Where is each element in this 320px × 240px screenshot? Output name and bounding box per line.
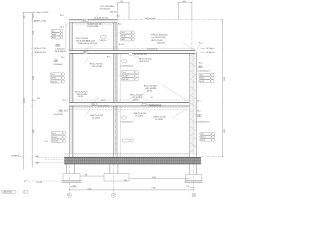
wall B above 1F slab <box>114 20 118 158</box>
svg-text:100V150 SBL: 100V150 SBL <box>87 26 99 28</box>
svg-text:Tsx 1: Tsx 1 <box>52 133 56 135</box>
svg-text:~PH Top Level: ~PH Top Level <box>144 18 156 20</box>
grid C centerline upper <box>191 20 193 52</box>
wall A above 1F slab <box>70 20 73 158</box>
svg-text:SBL 150: SBL 150 <box>110 12 117 14</box>
wall B centerline <box>114 22 116 157</box>
svg-text:C-100x50x20x2.3: C-100x50x20x2.3 <box>197 121 210 123</box>
svg-text:FG1: FG1 <box>124 180 127 182</box>
svg-text:1,40: 1,40 <box>186 186 189 188</box>
title tag bottom-left <box>2 190 28 193</box>
svg-text:H=19: H=19 <box>52 37 56 39</box>
beam tag on 5F slab near B + note <box>142 103 161 106</box>
beam tag on roof near B + note <box>128 53 147 56</box>
1F slab level labels left <box>34 156 45 164</box>
svg-text:H=2.3: H=2.3 <box>201 139 205 141</box>
svg-text:600: 600 <box>24 16 26 19</box>
svg-text:~1F.BL: ~1F.BL <box>34 163 39 165</box>
svg-text:5F Btm Lv 150: 5F Btm Lv 150 <box>150 105 162 108</box>
svg-text:SL-B t=150 15: SL-B t=150 15 <box>98 104 109 107</box>
grid C witness pair + 600 dim <box>178 1 193 20</box>
svg-text:PL 2-M16: PL 2-M16 <box>155 119 163 121</box>
svg-text:RL-5: RL-5 <box>60 15 64 17</box>
svg-text:~PH RFL+19,85: ~PH RFL+19,85 <box>33 20 46 22</box>
svg-text:Tsx 1: Tsx 1 <box>200 74 204 76</box>
svg-text:RL-5: RL-5 <box>117 15 121 17</box>
note block right of B above roof + T6 <box>117 24 195 51</box>
svg-text:2,600: 2,600 <box>33 31 35 35</box>
svg-text:2,800: 2,800 <box>224 129 226 133</box>
svg-text:t=15: t=15 <box>44 140 47 143</box>
svg-text:W=900: W=900 <box>51 78 56 80</box>
5FL label left <box>32 98 41 100</box>
svg-text:GUS GPL-9: GUS GPL-9 <box>139 61 149 63</box>
svg-text:~Max. +21,150: ~Max. +21,150 <box>36 12 48 14</box>
svg-text:1-AB-087636: 1-AB-087636 <box>3 191 13 194</box>
footing C <box>184 175 202 183</box>
svg-text:Tsx 1: Tsx 1 <box>52 31 56 33</box>
wall A outer finish line (PH storey) <box>65 22 67 50</box>
beam tag box on PH roof <box>82 17 108 22</box>
top level tie + max height label <box>23 12 48 14</box>
svg-text:2,800: 2,800 <box>224 77 226 81</box>
5F slab band <box>64 100 189 109</box>
svg-text:PL 2-M16: PL 2-M16 <box>135 115 143 117</box>
svg-text:X2: X2 <box>113 195 115 197</box>
svg-text:SS 50: SS 50 <box>133 99 138 101</box>
svg-text:RL-5: RL-5 <box>63 100 67 102</box>
svg-text:H=23: H=23 <box>121 39 125 41</box>
svg-text:C-100x50x20x2.3: C-100x50x20x2.3 <box>120 66 133 68</box>
footing B <box>104 174 129 182</box>
column C roof to 1F slab <box>190 52 197 157</box>
right C cluster upper <box>197 63 214 83</box>
svg-text:Tsx 1: Tsx 1 <box>122 72 126 74</box>
svg-text:W=90: W=90 <box>52 34 56 36</box>
PH roof level label left <box>32 20 46 22</box>
svg-text:SS 100V150: SS 100V150 <box>100 9 110 11</box>
1F slab band <box>64 157 201 164</box>
svg-text:SS 50: SS 50 <box>147 91 152 93</box>
svg-text:RL-5: RL-5 <box>197 100 201 102</box>
grid B witness pair + 500 dim <box>117 1 130 19</box>
svg-text:2,800: 2,800 <box>33 129 35 133</box>
svg-text:786: 786 <box>85 175 88 177</box>
column C below slab <box>190 164 197 175</box>
grid bubble A <box>67 193 71 197</box>
svg-text:RL-5: RL-5 <box>199 43 203 45</box>
svg-text:~1F.SL: ~1F.SL <box>34 156 39 158</box>
svg-text:X1: X1 <box>68 195 70 197</box>
svg-text:~Design GL: ~Design GL <box>11 155 20 157</box>
main bottom dim line <box>69 187 195 190</box>
right C cluster lower <box>197 100 215 141</box>
svg-text:PH2: PH2 <box>56 45 59 47</box>
svg-text:W=16: W=16 <box>121 36 125 38</box>
main roof finish line <box>69 47 195 49</box>
table T1 left PH level <box>51 30 63 40</box>
svg-text:~5F.SL+17,250: ~5F.SL+17,250 <box>34 48 46 50</box>
footing A <box>62 174 82 182</box>
chevron brace bay B-C + notes <box>130 85 188 103</box>
svg-text:C-100x50x20: C-100x50x20 <box>53 114 63 116</box>
svg-text:3,050: 3,050 <box>152 177 156 179</box>
W9 tag + T3 left 4F <box>51 110 68 143</box>
beam tag box on 5F slab + note <box>92 103 109 108</box>
wall B inner finish line <box>120 54 122 157</box>
svg-text:RL-5: RL-5 <box>64 111 68 113</box>
svg-text:SS 50: SS 50 <box>78 96 83 98</box>
1F level line right + tick <box>201 156 224 158</box>
ghost GL label far left <box>11 155 23 157</box>
svg-text:W=900: W=900 <box>52 137 57 139</box>
svg-text:~5F.BL+16,700: ~5F.BL+16,700 <box>34 52 46 54</box>
svg-text:W9: W9 <box>198 115 201 117</box>
W9 tag + T2 left 5F <box>50 60 64 84</box>
note below 5F slab bay A-B + leader <box>86 97 103 119</box>
roof note above left + leader <box>84 40 97 51</box>
svg-text:Tsx 1: Tsx 1 <box>121 32 125 34</box>
svg-text:~SL: ~SL <box>150 97 153 99</box>
svg-text:RL-5: RL-5 <box>107 57 111 59</box>
svg-text:R1: R1 <box>84 52 86 54</box>
small dim grid C <box>186 186 194 188</box>
PH roof note + leader <box>93 6 117 20</box>
1F ghost dashes left <box>45 158 64 163</box>
roof level labels right <box>195 43 215 54</box>
svg-text:7,450: 7,450 <box>152 187 156 189</box>
grid stems <box>69 153 193 194</box>
svg-text:W9: W9 <box>59 111 62 113</box>
PH top level line <box>117 18 223 20</box>
svg-text:RL-5: RL-5 <box>118 24 122 26</box>
notes below 5F slab near B <box>117 112 146 124</box>
svg-text:RL-5: RL-5 <box>199 63 203 65</box>
1F finish hatch strip <box>64 153 190 157</box>
svg-text:Tsx 1: Tsx 1 <box>201 133 205 135</box>
grid bubble C <box>192 193 196 197</box>
svg-text:1,300: 1,300 <box>33 14 35 18</box>
svg-text:400sq SS: 400sq SS <box>157 43 166 45</box>
R marks PH roof left corner <box>60 15 70 28</box>
svg-text:RL-5: RL-5 <box>197 110 201 112</box>
svg-text:C-100 50: C-100 50 <box>99 40 106 42</box>
ground line left <box>24 180 62 184</box>
svg-text:C-100x50x20x2.3: C-100x50x20x2.3 <box>197 71 210 73</box>
svg-text:W=2.0: W=2.0 <box>201 136 206 138</box>
note below 5F slab right + leader <box>150 97 187 121</box>
dim footingA-footingB <box>80 175 104 177</box>
svg-text:RL-5: RL-5 <box>61 57 65 59</box>
svg-text:PL 2-M16: PL 2-M16 <box>92 117 100 119</box>
svg-text:600: 600 <box>183 1 186 3</box>
svg-text:PR1: PR1 <box>83 20 86 22</box>
svg-text:C-100x50x20x2.3: C-100x50x20x2.3 <box>120 122 133 124</box>
svg-text:W=1,800: W=1,800 <box>122 76 129 78</box>
notes between PH roof and main roof <box>76 23 106 45</box>
grid bubble B <box>112 193 116 197</box>
svg-text:~5F Btm Lv.: ~5F Btm Lv. <box>205 51 215 54</box>
svg-text:2-M16 SS: 2-M16 SS <box>78 43 87 45</box>
svg-text:RL-5: RL-5 <box>101 100 105 102</box>
svg-text:H=2,300: H=2,300 <box>122 79 128 81</box>
svg-text:1,400: 1,400 <box>72 186 76 188</box>
svg-text:SL-B t=150 50: SL-B t=150 50 <box>147 48 157 51</box>
svg-text:W9: W9 <box>199 66 202 68</box>
svg-text:SL-A 0S-150 150: SL-A 0S-150 150 <box>95 17 109 20</box>
svg-text:W9: W9 <box>55 60 58 62</box>
right dimension line <box>222 19 226 158</box>
left inner dimension line <box>31 12 35 168</box>
notes above 1F slab <box>44 139 133 143</box>
table T7 bay B-C 5F <box>118 71 138 82</box>
PH bay brace note <box>85 57 111 68</box>
svg-text:SL 150: SL 150 <box>119 44 125 46</box>
svg-text:500: 500 <box>120 1 123 3</box>
column A below slab <box>66 164 74 174</box>
svg-text:GPL-9 2-M16: GPL-9 2-M16 <box>92 66 103 68</box>
svg-text:H=2.3: H=2.3 <box>200 81 204 83</box>
svg-text:H=2,000: H=2,000 <box>52 141 58 143</box>
svg-text:~5F Top Lv.: ~5F Top Lv. <box>205 48 215 50</box>
svg-text:X3: X3 <box>193 195 195 197</box>
left outer dimension line <box>23 12 27 170</box>
svg-text:SL-150 1FS 150: SL-150 1FS 150 <box>134 54 147 56</box>
svg-text:5F dr FSD1a: 5F dr FSD1a <box>55 50 67 53</box>
dim footingB-footingC <box>130 177 190 179</box>
svg-text:H=2,000: H=2,000 <box>51 81 57 83</box>
svg-text:Tsx 1: Tsx 1 <box>51 74 55 76</box>
PH roof slab band <box>70 20 118 25</box>
5F roof level labels left <box>34 48 46 54</box>
svg-text:BR 2L-75 GPL: BR 2L-75 GPL <box>151 40 164 42</box>
svg-text:W=2.0: W=2.0 <box>200 78 205 80</box>
svg-text:5: 5 <box>24 192 25 194</box>
svg-text:2,800: 2,800 <box>33 76 35 80</box>
svg-text:4,100: 4,100 <box>88 188 92 190</box>
svg-text:12,150: 12,150 <box>24 98 26 103</box>
oval tag + notes below roof near B <box>120 55 151 68</box>
main roof slab band <box>69 50 195 53</box>
wall A inner finish line <box>73 54 75 157</box>
svg-text:C-100x50x20: C-100x50x20 <box>53 64 63 66</box>
brace note bay A-B 5F <box>63 92 105 102</box>
beam tag box on roof left <box>83 51 88 54</box>
svg-text:~GL-150: ~GL-150 <box>36 182 42 184</box>
small dim grid A <box>69 186 77 188</box>
svg-text:RL-5: RL-5 <box>61 26 65 28</box>
column B below slab <box>110 164 118 174</box>
PH2 tag + notes left <box>55 44 67 59</box>
